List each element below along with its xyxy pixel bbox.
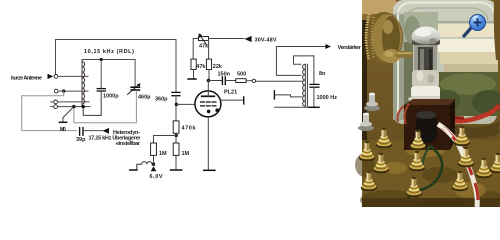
node dot mid tap xyxy=(62,89,65,92)
svg-text:M0: M0 xyxy=(60,127,66,133)
svg-text:500: 500 xyxy=(237,71,246,77)
magnifier icon xyxy=(464,15,486,37)
wire 22k bottom xyxy=(208,70,210,81)
pedestal dark block xyxy=(404,105,450,150)
wire 460p top xyxy=(134,60,136,87)
resistor 470k xyxy=(173,121,179,133)
top-left wood corner xyxy=(362,0,396,20)
wire 1000p bottom loop xyxy=(83,91,101,115)
capacitor 8n xyxy=(310,84,319,87)
capacitor 360p xyxy=(172,92,180,95)
svg-text:360p: 360p xyxy=(155,97,168,103)
svg-text:6,0V: 6,0V xyxy=(150,174,163,180)
tube grid dashes row1 xyxy=(201,101,216,103)
wire pot right to 22k xyxy=(208,39,210,60)
svg-text:1000p: 1000p xyxy=(103,94,119,100)
ground M0 diagonal xyxy=(63,107,74,122)
wire transformer top loop xyxy=(294,56,314,64)
svg-text:1M: 1M xyxy=(182,151,190,157)
wire anode row xyxy=(209,80,222,82)
red wire ring xyxy=(436,105,499,121)
terminal circle tap upper xyxy=(54,100,58,104)
resistor 1M right xyxy=(173,143,179,155)
svg-text:39p: 39p xyxy=(76,137,86,143)
tube chrome dome xyxy=(412,27,441,48)
svg-text:30V-48V: 30V-48V xyxy=(255,38,277,44)
node dot grid xyxy=(175,103,178,106)
wire antenna to coil xyxy=(58,75,88,77)
bar cathode ground xyxy=(204,169,215,171)
svg-text:460p: 460p xyxy=(138,95,151,101)
wire grid to tube xyxy=(176,103,195,105)
potentiometer 47k wires xyxy=(193,39,244,60)
red wires at block left xyxy=(398,104,409,124)
wire cathode down xyxy=(207,117,209,170)
wire to 1M left xyxy=(154,136,177,144)
tube grid dashes row2 xyxy=(201,105,216,107)
tube cathode dot right xyxy=(215,108,219,112)
capacitor 150n xyxy=(222,77,225,84)
jar left inner dark xyxy=(404,40,413,115)
svg-text:Verstärker: Verstärker xyxy=(338,45,362,51)
resistor 47k xyxy=(191,59,196,69)
wire 39p to arrow xyxy=(84,130,103,132)
jar upper-left green tint xyxy=(404,12,438,42)
tube cathode dot left xyxy=(207,110,211,114)
node dot2 xyxy=(82,105,85,108)
stub tap upper xyxy=(51,101,54,103)
tube anode bar xyxy=(202,95,215,97)
arrow 30V-48V xyxy=(245,36,252,42)
wire transformer bottom xyxy=(275,106,309,108)
wire top rail 10,15kHz (antenna to 360p node) xyxy=(56,39,177,41)
wire 150n to 500 xyxy=(226,80,236,82)
heater squiggle xyxy=(137,162,154,170)
terminal circle bottom xyxy=(54,105,58,109)
resistor 500 xyxy=(236,79,246,83)
silver post b xyxy=(358,113,374,131)
node dot 6V xyxy=(152,163,155,166)
svg-text:1M: 1M xyxy=(159,151,167,157)
bar 1M right ground xyxy=(171,169,182,171)
wire 1000p top xyxy=(100,60,102,89)
bar transformer bottom xyxy=(309,106,319,108)
jar right cream bands xyxy=(404,21,497,23)
node dot 470k bottom xyxy=(175,134,178,137)
resistor 22k xyxy=(206,59,211,69)
transformer coil xyxy=(303,64,308,106)
antenna arrow xyxy=(48,74,54,79)
capacitor 1000p xyxy=(97,89,105,91)
wood dark patches bottom xyxy=(355,153,500,210)
node dot1 xyxy=(72,105,75,108)
svg-text:470k: 470k xyxy=(182,126,197,132)
photo wood bottom texture xyxy=(362,140,500,207)
bar 47k ground xyxy=(188,78,196,80)
jar left wall shade xyxy=(393,14,405,120)
svg-text:10,15 kHz (RDL): 10,15 kHz (RDL) xyxy=(84,49,134,55)
wire 1M right bottom xyxy=(175,155,177,169)
trimmer arrow 460p xyxy=(128,85,139,95)
wood light patches bottom xyxy=(383,143,486,198)
wire 8n bottom xyxy=(313,87,315,107)
wire 500 to terminal xyxy=(246,80,252,82)
coil L1 (tank coil) xyxy=(82,60,85,107)
glass jar xyxy=(393,0,497,124)
svg-text:150n: 150n xyxy=(218,71,231,77)
svg-text:einstellbar: einstellbar xyxy=(116,141,141,147)
wire 1M left bottom xyxy=(153,155,155,163)
wire heterodyn loop left xyxy=(22,91,77,131)
tube bulb bottom glassy xyxy=(412,70,439,88)
svg-text:47k: 47k xyxy=(196,64,206,70)
black cylinder xyxy=(416,114,437,143)
svg-text:47k: 47k xyxy=(199,44,209,50)
capacitor 460p (trimmer) xyxy=(131,87,139,90)
dark strip left edge xyxy=(362,20,367,140)
jar bottom shadow xyxy=(450,122,499,138)
wire 47k bottom xyxy=(193,70,195,79)
svg-text:8n: 8n xyxy=(319,71,326,77)
svg-text:PL21: PL21 xyxy=(224,90,237,96)
wire antenna vertical xyxy=(55,40,57,75)
marker 6,0V triangle xyxy=(151,166,157,171)
bar secondary terminal xyxy=(273,91,275,99)
photo background wood xyxy=(362,0,500,207)
svg-text:22k: 22k xyxy=(213,64,223,70)
arrow Verstarker xyxy=(325,44,331,49)
wire 470k to 1M right xyxy=(175,133,177,143)
wire tap upper to coil xyxy=(58,101,89,103)
ground M0 bar xyxy=(59,121,66,123)
wire 8n vertical top xyxy=(313,56,315,84)
silver post a xyxy=(364,93,380,111)
svg-text:1000 Hz: 1000 Hz xyxy=(317,95,338,101)
potentiometer arrow xyxy=(200,36,206,45)
jar interior murky green xyxy=(438,72,498,116)
svg-text:kurze Antenne: kurze Antenne xyxy=(11,76,42,82)
antenna terminal circle xyxy=(54,75,58,79)
wire mid tap xyxy=(58,90,88,92)
heater bar xyxy=(130,169,137,171)
bar grid terminal xyxy=(243,97,245,104)
node dot coil-top/1000p xyxy=(100,58,103,61)
tube PL21 envelope xyxy=(195,91,221,117)
tube socket metal xyxy=(408,97,439,108)
wire secondary tap xyxy=(275,95,302,97)
white twisted wire pair xyxy=(438,124,477,207)
potentiometer 47k xyxy=(199,37,209,41)
jar top rim curve xyxy=(398,3,494,14)
stub bottom xyxy=(51,106,54,108)
terminal circle mid tap xyxy=(54,89,58,93)
capacitor 39p xyxy=(80,128,83,136)
wire coil bottom xyxy=(58,106,90,108)
wire terminal to coil tap xyxy=(256,80,302,82)
wire 360p node vertical xyxy=(175,40,177,93)
wire Verstarker xyxy=(276,47,325,76)
terminal circle 500 xyxy=(252,79,255,82)
arrow heterodyn input xyxy=(103,128,110,134)
wire coil top xyxy=(82,59,135,61)
tube white ceramic base xyxy=(411,86,440,100)
knurled brass wheel xyxy=(365,12,403,64)
tube glass body xyxy=(414,45,437,73)
node dot anode xyxy=(207,79,211,83)
green wire xyxy=(408,146,442,198)
wire 460p bottom loop xyxy=(74,91,136,123)
wire tube right grid xyxy=(220,99,243,101)
wire 360p bottom to 470k xyxy=(175,96,177,121)
wire anode to node xyxy=(207,81,209,97)
resistor 1M left xyxy=(151,143,157,155)
right wood edge strip xyxy=(494,0,500,60)
